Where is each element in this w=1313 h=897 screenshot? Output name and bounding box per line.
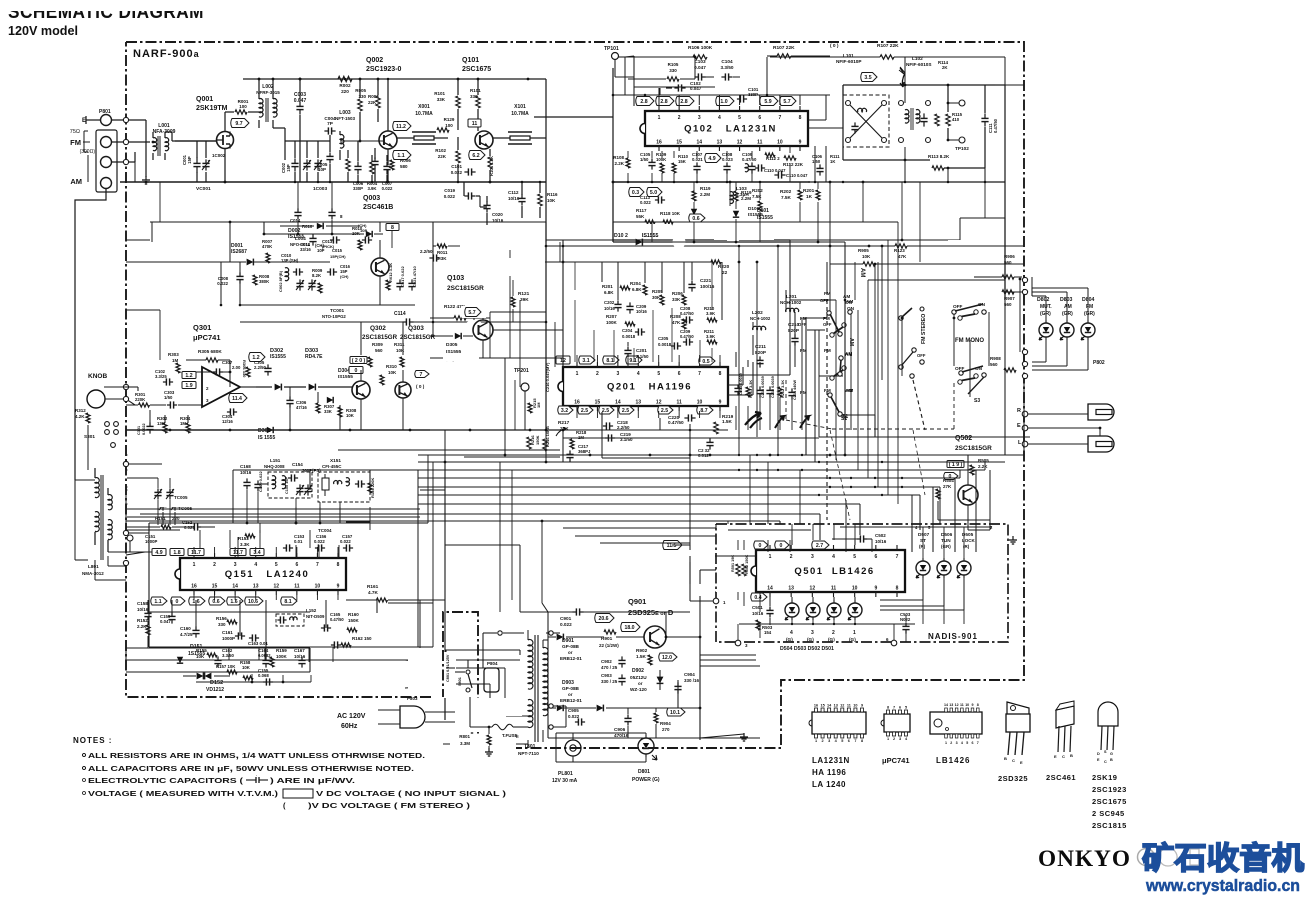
- svg-text:R119: R119: [741, 190, 752, 195]
- svg-text:LA 1240: LA 1240: [812, 780, 846, 789]
- svg-text:NIT-D509: NIT-D509: [306, 614, 325, 619]
- svg-text:2SC461B: 2SC461B: [363, 204, 393, 211]
- svg-text:C902: C902: [601, 659, 612, 664]
- svg-text:4: 4: [790, 630, 793, 636]
- svg-text:R129: R129: [444, 117, 455, 122]
- svg-text:C202: C202: [604, 300, 615, 305]
- svg-text:12: 12: [810, 586, 816, 592]
- svg-text:2SK19: 2SK19: [1092, 773, 1117, 782]
- svg-text:Q101: Q101: [462, 57, 479, 64]
- svg-text:0.023: 0.023: [722, 157, 733, 162]
- svg-text:22: 22: [722, 270, 728, 275]
- svg-text:11.4: 11.4: [232, 396, 242, 402]
- svg-text:8: 8: [719, 371, 722, 377]
- svg-text:R101: R101: [434, 91, 445, 96]
- svg-text:150K: 150K: [535, 435, 540, 445]
- svg-text:R801: R801: [459, 734, 470, 739]
- svg-text:R202: R202: [780, 189, 792, 194]
- svg-text:IS2687: IS2687: [231, 249, 247, 255]
- svg-text:10.1: 10.1: [670, 710, 680, 716]
- svg-text:5: 5: [657, 371, 660, 377]
- svg-text:220: 220: [341, 89, 349, 94]
- svg-text:R312: R312: [75, 408, 86, 413]
- svg-text:0: 0: [176, 599, 179, 605]
- svg-text:Q001: Q001: [196, 96, 213, 103]
- svg-text:1: 1: [769, 554, 772, 560]
- svg-text:9: 9: [874, 586, 877, 592]
- svg-text:11.7: 11.7: [191, 550, 201, 556]
- svg-text:13: 13: [717, 140, 723, 146]
- svg-text:6.2: 6.2: [472, 153, 479, 159]
- svg-text:3.1: 3.1: [582, 358, 589, 364]
- svg-text:12.0: 12.0: [662, 655, 672, 661]
- svg-text:14: 14: [944, 703, 948, 707]
- svg-text:R108: R108: [613, 155, 624, 160]
- svg-text:L201: L201: [786, 294, 797, 299]
- svg-text:410: 410: [952, 117, 960, 122]
- svg-text:D: D: [1097, 752, 1100, 756]
- svg-text:18.0: 18.0: [624, 625, 634, 631]
- svg-text:0.6: 0.6: [212, 599, 219, 605]
- svg-text:C: C: [1012, 758, 1015, 763]
- svg-text:3.2: 3.2: [561, 408, 568, 414]
- svg-text:R501 19K: R501 19K: [731, 555, 735, 572]
- svg-text:9: 9: [719, 400, 722, 406]
- svg-text:5.7: 5.7: [783, 99, 790, 105]
- svg-text:1M: 1M: [180, 421, 186, 426]
- svg-text:6: 6: [758, 115, 761, 121]
- svg-text:(GR): (GR): [941, 544, 951, 549]
- svg-text:LB1426: LB1426: [936, 756, 970, 765]
- svg-text:C905: C905: [568, 708, 579, 713]
- svg-text:05Z12U: 05Z12U: [630, 675, 647, 680]
- svg-text:FM STEREO: FM STEREO: [921, 314, 927, 344]
- svg-text:C019: C019: [444, 188, 455, 193]
- svg-text:OFF: OFF: [955, 366, 965, 371]
- svg-text:C214 440W: C214 440W: [793, 380, 797, 400]
- svg-text:22K: 22K: [438, 154, 447, 159]
- svg-text:2.7: 2.7: [816, 543, 823, 549]
- svg-text:5.0: 5.0: [650, 190, 657, 196]
- svg-text:N022: N022: [900, 617, 911, 622]
- svg-text:1: 1: [945, 741, 947, 745]
- svg-text:2 SC945: 2 SC945: [1092, 809, 1125, 818]
- svg-text:1.9: 1.9: [185, 383, 192, 389]
- svg-text:6: 6: [848, 739, 850, 743]
- svg-text:ELECTROLYTIC CAPACITORS (: ELECTROLYTIC CAPACITORS (: [88, 776, 244, 785]
- svg-text:3.4: 3.4: [253, 550, 260, 556]
- svg-text:R102: R102: [435, 148, 446, 153]
- svg-text:AM: AM: [845, 351, 852, 356]
- svg-text:8: 8: [977, 703, 979, 707]
- svg-text:6: 6: [295, 562, 298, 568]
- svg-text:47K: 47K: [898, 254, 907, 259]
- svg-text:C101: C101: [451, 164, 462, 169]
- svg-text:( 2 0 ): ( 2 0 ): [352, 358, 366, 364]
- svg-text:39K: 39K: [520, 297, 529, 302]
- svg-text:1: 1: [887, 737, 889, 741]
- svg-text:14: 14: [767, 586, 773, 592]
- svg-text:11: 11: [960, 703, 964, 707]
- svg-text:2.5: 2.5: [622, 408, 629, 414]
- svg-text:5: 5: [841, 739, 843, 743]
- svg-text:ALL CAPACITORS ARE IN μF,: ALL CAPACITORS ARE IN μF, 50WV UNLESS OT…: [88, 763, 414, 773]
- svg-text:150K: 150K: [348, 618, 360, 623]
- svg-text:C160: C160: [180, 626, 191, 631]
- svg-text:(G): (G): [849, 637, 856, 642]
- svg-text:8: 8: [799, 115, 802, 121]
- svg-text:0.47/50: 0.47/50: [742, 157, 757, 162]
- svg-text:NTO-10PG2: NTO-10PG2: [322, 314, 346, 319]
- svg-text:0.022: 0.022: [640, 200, 651, 205]
- svg-text:2SK19TM: 2SK19TM: [196, 105, 228, 112]
- svg-text:R107 22K: R107 22K: [773, 45, 795, 51]
- svg-text:R310: R310: [386, 364, 397, 369]
- svg-text:R217: R217: [558, 420, 570, 425]
- svg-text:13: 13: [834, 704, 838, 708]
- svg-text:S1: S1: [841, 416, 847, 422]
- svg-text:P804: P804: [487, 661, 498, 666]
- svg-text:R202: R202: [752, 188, 763, 193]
- svg-text:10/16: 10/16: [294, 654, 306, 659]
- svg-text:E: E: [1054, 754, 1057, 759]
- svg-text:R156: R156: [216, 616, 227, 621]
- svg-text:470 / 25: 470 / 25: [601, 665, 618, 670]
- svg-text:27K: 27K: [943, 484, 952, 489]
- svg-text:矿石收音机: 矿石收音机: [1142, 841, 1304, 876]
- svg-text:1.0: 1.0: [720, 99, 727, 105]
- svg-text:C112: C112: [508, 190, 519, 195]
- svg-text:55K: 55K: [636, 214, 645, 219]
- svg-text:0.01: 0.01: [294, 539, 303, 544]
- svg-text:X001: X001: [418, 104, 430, 110]
- svg-text:12: 12: [840, 704, 844, 708]
- svg-text:ERB12-01: ERB12-01: [560, 698, 582, 703]
- svg-text:C212 0.0039: C212 0.0039: [771, 376, 775, 398]
- svg-text:(GR): (GR): [1062, 311, 1073, 317]
- svg-text:R119: R119: [700, 186, 711, 191]
- svg-text:5.9: 5.9: [764, 99, 771, 105]
- svg-text:CFI-455C: CFI-455C: [322, 464, 342, 469]
- svg-text:2SC1675: 2SC1675: [462, 66, 491, 73]
- svg-text:R116: R116: [547, 192, 558, 197]
- svg-text:R157 10K: R157 10K: [216, 664, 236, 669]
- svg-text:7P: 7P: [327, 121, 333, 126]
- svg-text:AC 120V: AC 120V: [337, 713, 366, 720]
- svg-text:PL801: PL801: [558, 771, 573, 777]
- svg-text:R303: R303: [168, 352, 179, 357]
- svg-text:5: 5: [966, 741, 968, 745]
- svg-text:11: 11: [757, 140, 763, 146]
- svg-text:IS1555: IS1555: [338, 374, 353, 379]
- svg-text:5.7: 5.7: [468, 310, 475, 316]
- svg-text:NPT-7110: NPT-7110: [518, 751, 539, 756]
- svg-text:13: 13: [636, 400, 642, 406]
- svg-text:9: 9: [972, 703, 974, 707]
- svg-text:2.2/50: 2.2/50: [617, 425, 630, 430]
- svg-text:AM: AM: [846, 299, 853, 304]
- svg-text:GP-08B: GP-08B: [562, 686, 580, 691]
- svg-text:2.2K: 2.2K: [137, 624, 147, 629]
- svg-text:1.5K: 1.5K: [722, 419, 733, 424]
- svg-text:5: 5: [275, 562, 278, 568]
- svg-text:0.021: 0.021: [692, 157, 703, 162]
- svg-text:2.5: 2.5: [661, 408, 668, 414]
- svg-text:L801: L801: [88, 564, 99, 569]
- svg-text:1: 1: [853, 630, 856, 636]
- svg-text:C901: C901: [560, 616, 572, 621]
- svg-text:R006: R006: [400, 158, 411, 163]
- svg-text:4.9: 4.9: [155, 550, 162, 556]
- svg-text:OFF: OFF: [798, 322, 807, 327]
- svg-text:B: B: [1004, 756, 1007, 761]
- svg-text:1.5K: 1.5K: [636, 654, 647, 659]
- svg-text:15: 15: [820, 704, 824, 708]
- svg-text:9: 9: [799, 140, 802, 146]
- svg-text:11.5: 11.5: [667, 543, 677, 549]
- svg-text:1M: 1M: [578, 435, 584, 440]
- svg-text:4.7/25: 4.7/25: [180, 632, 193, 637]
- svg-text:0.0022: 0.0022: [142, 423, 146, 435]
- svg-text:470K: 470K: [262, 244, 273, 249]
- svg-text:3: 3: [956, 741, 958, 745]
- svg-text:4.2K: 4.2K: [75, 414, 85, 419]
- svg-text:1M: 1M: [536, 402, 541, 408]
- svg-text:R152: R152: [137, 618, 148, 623]
- svg-text:12: 12: [656, 400, 662, 406]
- svg-text:10K: 10K: [862, 254, 871, 259]
- svg-text:1M: 1M: [172, 358, 179, 363]
- svg-text:2SC1815GR: 2SC1815GR: [362, 334, 398, 341]
- svg-text:2.8: 2.8: [640, 99, 647, 105]
- svg-text:1: 1: [576, 371, 579, 377]
- svg-text:0: 0: [355, 368, 358, 374]
- svg-text:FM: FM: [70, 138, 81, 147]
- svg-text:368PJ: 368PJ: [578, 449, 591, 454]
- svg-text:L101: L101: [843, 53, 854, 58]
- svg-text:R906: R906: [1004, 254, 1015, 259]
- svg-text:C221: C221: [700, 278, 712, 283]
- svg-text:4: 4: [961, 741, 963, 745]
- svg-text:8: 8: [887, 706, 889, 710]
- svg-text:4: 4: [832, 554, 835, 560]
- svg-text:330 /16: 330 /16: [684, 678, 700, 683]
- svg-text:11: 11: [472, 121, 478, 127]
- svg-text:TP102: TP102: [955, 146, 969, 151]
- svg-text:R112 22K: R112 22K: [783, 162, 804, 167]
- svg-text:IS 1555: IS 1555: [258, 435, 275, 441]
- svg-text:R162 150: R162 150: [352, 636, 372, 641]
- svg-text:C110 0.047: C110 0.047: [764, 168, 786, 173]
- svg-text:10.7MA: 10.7MA: [511, 111, 529, 117]
- svg-text:R012 3.3K: R012 3.3K: [388, 263, 393, 282]
- svg-text:3.5: 3.5: [864, 75, 871, 81]
- svg-text:330: 330: [669, 68, 677, 73]
- svg-text:6.8K: 6.8K: [632, 287, 642, 292]
- svg-text:Q301: Q301: [193, 323, 211, 332]
- svg-text:0.022: 0.022: [444, 194, 456, 199]
- svg-text:R121: R121: [518, 291, 530, 296]
- svg-text:C204: C204: [622, 328, 633, 333]
- svg-text:FM: FM: [1086, 304, 1093, 310]
- svg-text:R907: R907: [1004, 296, 1015, 301]
- svg-text:12/16: 12/16: [222, 419, 233, 424]
- svg-text:13K: 13K: [157, 421, 166, 426]
- svg-text:C002 8P(B): C002 8P(B): [278, 270, 283, 292]
- svg-text:POWER (G): POWER (G): [632, 777, 660, 783]
- svg-text:330P: 330P: [353, 186, 363, 191]
- svg-text:100: 100: [239, 104, 247, 109]
- svg-text:10K: 10K: [242, 665, 251, 670]
- svg-text:10/16: 10/16: [875, 539, 887, 544]
- svg-text:6: 6: [972, 741, 974, 745]
- svg-text:3.9K: 3.9K: [367, 186, 377, 191]
- svg-text:NFIF-6010S: NFIF-6010S: [906, 62, 932, 67]
- svg-text:7: 7: [977, 741, 979, 745]
- svg-text:NCH-1002: NCH-1002: [750, 316, 771, 321]
- svg-text:3: 3: [811, 630, 814, 636]
- svg-text:330: 330: [358, 94, 366, 99]
- svg-text:D801: D801: [638, 769, 650, 775]
- svg-text:15: 15: [595, 400, 601, 406]
- svg-text:C501: C501: [752, 605, 763, 610]
- svg-text:NHQ-2008: NHQ-2008: [264, 464, 285, 469]
- svg-text:1K: 1K: [806, 194, 813, 199]
- svg-text:33/16: 33/16: [300, 247, 311, 252]
- svg-text:5: 5: [738, 115, 741, 121]
- svg-text:7: 7: [420, 372, 423, 378]
- svg-text:3: 3: [698, 115, 701, 121]
- svg-text:10: 10: [853, 704, 857, 708]
- svg-text:12: 12: [274, 584, 280, 590]
- svg-text:GP-08B: GP-08B: [562, 644, 580, 649]
- svg-text:3.9K: 3.9K: [706, 311, 716, 316]
- svg-text:14: 14: [232, 584, 238, 590]
- svg-text:8.1: 8.1: [284, 599, 291, 605]
- svg-text:R159: R159: [276, 648, 287, 653]
- svg-text:R010: R010: [302, 224, 313, 229]
- svg-text:3: 3: [899, 737, 901, 741]
- svg-text:1.2: 1.2: [185, 373, 192, 379]
- svg-text:3.3K: 3.3K: [437, 256, 447, 261]
- svg-text:2: 2: [596, 371, 599, 377]
- svg-text:KNOB: KNOB: [88, 373, 107, 380]
- svg-text:IS1555: IS1555: [288, 234, 305, 240]
- svg-text:(CH): (CH): [340, 274, 349, 279]
- svg-text:3.3/50: 3.3/50: [222, 653, 235, 658]
- svg-text:( 0 ): ( 0 ): [830, 43, 839, 49]
- svg-text:1/50: 1/50: [812, 159, 821, 164]
- svg-text:R306 330: R306 330: [242, 360, 247, 378]
- svg-text:Q002: Q002: [366, 57, 383, 64]
- svg-text:4: 4: [254, 562, 257, 568]
- svg-text:2: 2: [678, 115, 681, 121]
- svg-text:1C003: 1C003: [313, 186, 327, 192]
- svg-text:10/16: 10/16: [752, 611, 764, 616]
- svg-text:1.1: 1.1: [154, 599, 161, 605]
- svg-text:9: 9: [861, 704, 863, 708]
- svg-text:1: 1: [815, 739, 817, 743]
- svg-text:NFRF-3015: NFRF-3015: [256, 90, 280, 95]
- svg-text:0.47/50: 0.47/50: [680, 311, 694, 316]
- svg-text:11: 11: [676, 400, 682, 406]
- svg-text:10/16: 10/16: [604, 306, 615, 311]
- svg-text:C158: C158: [137, 601, 148, 606]
- svg-text:R902: R902: [636, 648, 648, 653]
- svg-text:0.0018: 0.0018: [622, 334, 636, 339]
- svg-text:4: 4: [637, 371, 640, 377]
- svg-text:2SC1923-0: 2SC1923-0: [366, 66, 402, 73]
- svg-text:TC004: TC004: [318, 528, 332, 533]
- svg-text:ONKYO: ONKYO: [1038, 846, 1131, 871]
- svg-text:330 / 25: 330 / 25: [601, 679, 618, 684]
- svg-text:11: 11: [831, 586, 837, 592]
- svg-text:16: 16: [656, 140, 662, 146]
- svg-text:20.6: 20.6: [598, 616, 608, 622]
- svg-text:ERB12-01: ERB12-01: [560, 656, 582, 661]
- svg-text:15P: 15P: [286, 164, 291, 172]
- svg-text:C502: C502: [875, 533, 886, 538]
- svg-text:1000P: 1000P: [222, 636, 235, 641]
- svg-text:100: 100: [445, 123, 453, 128]
- svg-text:11: 11: [847, 704, 851, 708]
- svg-text:7: 7: [698, 371, 701, 377]
- svg-text:C163 0.01: C163 0.01: [248, 641, 268, 646]
- svg-text:C169 0.022: C169 0.022: [258, 471, 263, 492]
- svg-text:6: 6: [899, 706, 901, 710]
- svg-text:10/16: 10/16: [508, 196, 520, 201]
- svg-text:C155 15P: C155 15P: [285, 477, 289, 494]
- svg-text:330: 330: [470, 94, 478, 99]
- svg-text:0.47/50: 0.47/50: [668, 420, 684, 425]
- svg-text:12: 12: [955, 703, 959, 707]
- svg-text:R161: R161: [367, 584, 379, 589]
- svg-text:Q103: Q103: [447, 275, 464, 282]
- svg-text:13: 13: [253, 584, 259, 590]
- svg-text:2.5: 2.5: [581, 408, 588, 414]
- svg-text:TP101: TP101: [604, 46, 619, 52]
- svg-text:X101: X101: [514, 104, 526, 110]
- svg-text:LA1231N: LA1231N: [812, 756, 850, 765]
- svg-text:8: 8: [861, 739, 863, 743]
- svg-text:10P: 10P: [318, 167, 326, 172]
- svg-text:G: G: [1110, 752, 1113, 756]
- svg-text:C: C: [1062, 754, 1065, 759]
- svg-text:60Hz: 60Hz: [341, 723, 358, 730]
- svg-text:D902: D902: [632, 668, 644, 674]
- svg-text:R905: R905: [858, 248, 869, 253]
- svg-text:B: B: [1110, 758, 1113, 762]
- svg-text:R201: R201: [602, 284, 613, 289]
- svg-text:D305: D305: [446, 342, 458, 348]
- svg-text:C201: C201: [636, 348, 647, 353]
- svg-text:7: 7: [893, 706, 895, 710]
- svg-text:R160: R160: [348, 612, 359, 617]
- svg-text:AM: AM: [70, 177, 82, 186]
- svg-text:3.3/25: 3.3/25: [155, 374, 167, 379]
- svg-text:R305 680K: R305 680K: [198, 349, 222, 354]
- svg-text:2: 2: [822, 739, 824, 743]
- svg-text:C104: C104: [721, 59, 733, 64]
- svg-text:2: 2: [213, 562, 216, 568]
- svg-text:9: 9: [337, 584, 340, 590]
- svg-text:or: or: [638, 681, 643, 686]
- svg-text:( 0 ): ( 0 ): [416, 384, 425, 389]
- svg-text:2: 2: [893, 737, 895, 741]
- svg-text:2.2M: 2.2M: [741, 196, 751, 201]
- svg-text:1/50: 1/50: [164, 395, 173, 400]
- svg-text:C103: C103: [694, 59, 706, 64]
